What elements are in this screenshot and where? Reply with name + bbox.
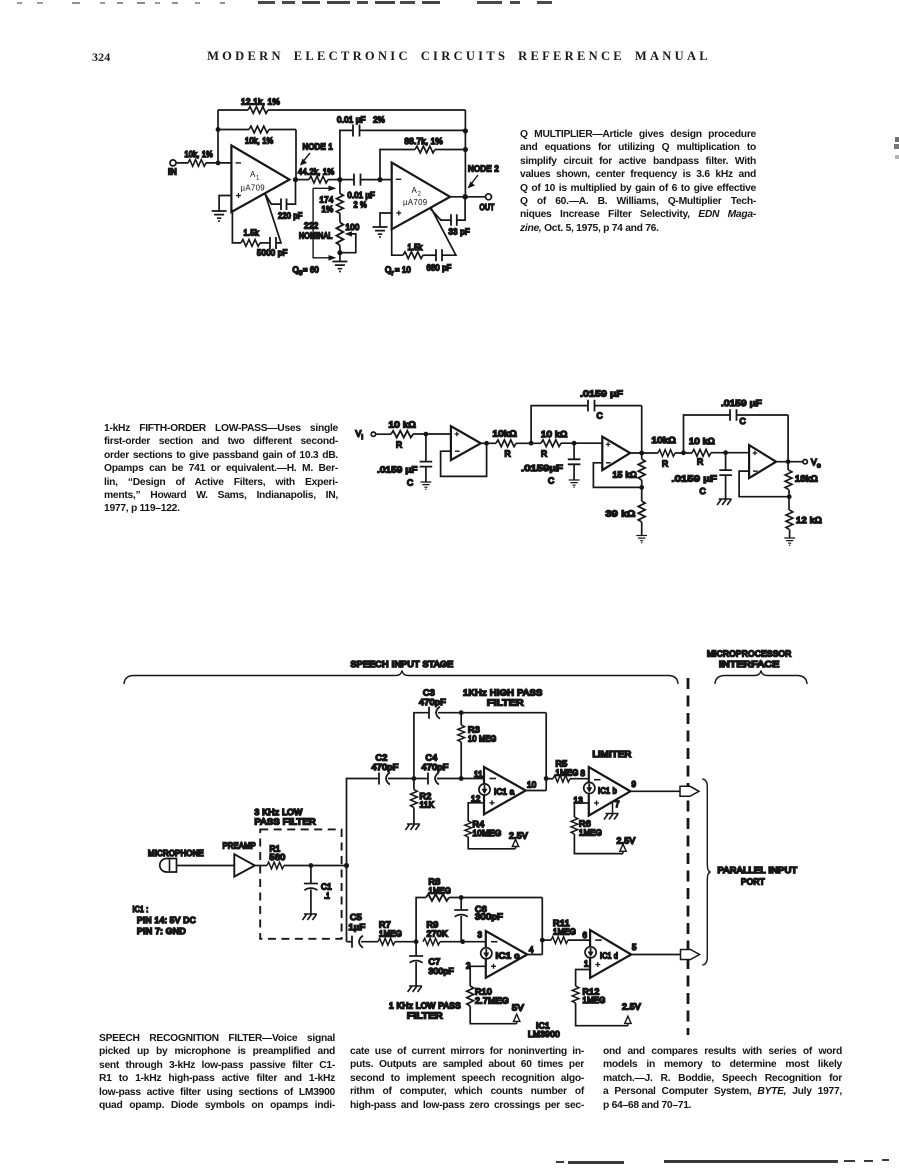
node 44.2k/174 junction [337,177,342,182]
resistor 12 kOhm [786,510,822,538]
svg-text:= 60: = 60 [303,266,319,275]
svg-text:3: 3 [478,931,483,940]
svg-text:10 kΩ: 10 kΩ [689,436,715,446]
page header [92,50,110,65]
svg-text:LM3900: LM3900 [528,1030,560,1039]
svg-text:C3: C3 [423,689,435,698]
svg-text:PIN 7: GND: PIN 7: GND [137,927,186,936]
resistor 1.5k comp A1 [232,213,260,247]
svg-text:11K: 11K [420,801,435,810]
svg-text:18kΩ: 18kΩ [795,474,818,484]
node U3 out [786,459,791,464]
svg-text:300pF: 300pF [429,967,455,976]
node IC1a out / R5 [544,776,549,781]
wire U1 out [481,442,496,444]
right edge scan artifacts [895,137,899,142]
wire A2 output [450,196,485,198]
node IC1c out / R11 [540,938,545,943]
label PARALLEL INPUT PORT [718,866,798,887]
bottom scan artifacts [556,1161,564,1163]
ground R2 [405,824,420,830]
dashed boundary microprocessor [687,678,690,1035]
wire IC1d out [631,954,680,956]
capacitor C6 300pF [454,898,503,942]
node sec2 mid [572,441,577,446]
svg-text:C5: C5 [350,913,362,922]
svg-text:8: 8 [581,769,586,778]
svg-text:10kΩ: 10kΩ [493,429,518,439]
resistor 1.5k comp A2 [392,229,423,258]
svg-text:5: 5 [632,943,637,952]
svg-text:C: C [407,478,413,488]
svg-text:PORT: PORT [741,878,765,887]
svg-text:11: 11 [474,770,483,779]
svg-text:10 MEG: 10 MEG [468,735,497,744]
node sec3 left [681,450,686,455]
capacitor 680 pF [423,208,456,273]
wire fb2 vertical [641,406,643,459]
svg-text:5V: 5V [512,1004,524,1013]
wire preamp out [255,865,267,867]
svg-text:OUT: OUT [480,203,495,212]
caption: speech recognition col 3 [603,1046,842,1113]
wire riser R8 [416,898,426,942]
brace speech input stage [124,671,678,685]
svg-text:IC1 d: IC1 d [600,952,618,961]
ground shunt1 [421,482,432,490]
svg-text:C: C [548,476,554,486]
resistor R7 1MEG [378,921,416,946]
svg-text:R: R [697,457,703,467]
dashed box 3kHz low pass filter [260,829,341,938]
caption: speech recognition col 1 [99,1033,335,1113]
resistor R5 1MEG [546,760,589,783]
pin 7 ground [604,800,620,820]
svg-text:1.5k: 1.5k [244,229,260,238]
op-amp U2 [602,437,630,470]
resistor R6 1MEG [571,817,623,854]
svg-text:PREAMP: PREAMP [223,842,257,851]
wire IC1a out [526,713,547,791]
wire input [376,433,451,435]
label IC1 pin notes [133,905,197,936]
svg-text:10 kΩ: 10 kΩ [389,420,417,430]
svg-text:4: 4 [529,946,534,955]
node pot bottom [337,250,342,255]
resistor 39 kOhm [606,501,646,535]
svg-text:300pF: 300pF [475,913,503,922]
node input RC [424,432,429,437]
supply arrow 2.5V IC1b [617,837,636,854]
trimmer arrows 222 NOMINAL [299,186,336,261]
svg-text:NOMINAL: NOMINAL [299,232,333,241]
svg-text:1MEG: 1MEG [379,930,402,939]
svg-text:2: 2 [418,192,422,198]
output flag high pass [680,786,699,796]
wire 88.7k riser [380,150,415,180]
svg-text:R7: R7 [379,921,391,930]
node C4/R3/IC1a [459,776,464,781]
capacitor C .0159 uF fb2 [580,389,642,421]
node U2 out [639,451,644,456]
svg-text:88.7k, 1%: 88.7k, 1% [405,137,444,146]
svg-text:2 %: 2 % [354,201,368,210]
svg-text:1 KHz LOW PASS: 1 KHz LOW PASS [389,1002,461,1011]
output terminal Vo [803,457,821,470]
svg-text:1: 1 [584,960,589,969]
svg-text:.0159 µF: .0159 µF [721,398,762,408]
label 1KHz high pass filter [463,689,543,708]
svg-text:MICROPROCESSOR: MICROPROCESSOR [707,650,792,659]
label 3 KHz LOW PASS FILTER [255,808,317,827]
svg-text:1.5k: 1.5k [408,243,424,252]
resistor 174 1% trimmed [320,180,344,223]
output flag low pass [681,950,700,960]
ground pot [332,253,347,273]
resistor 15 kOhm [613,459,646,480]
svg-text:220 pF: 220 pF [278,212,303,221]
node 15k/39k [639,485,644,490]
svg-text:R10: R10 [475,988,492,997]
wire IC1c out [527,898,542,955]
svg-text:.0159µF: .0159µF [521,463,563,473]
supply arrow 2.5V IC1d [622,1003,641,1026]
op-amp A1 uA709 [231,145,289,212]
capacitor C1 .1 [304,866,332,914]
svg-text:1MEG: 1MEG [579,829,602,838]
resistor R10 2.7MEG [467,986,517,1024]
op-amp U3 [749,445,776,478]
output terminal OUT [480,194,495,212]
svg-text:NODE 2: NODE 2 [468,165,499,174]
wire vertical left riser [217,110,219,163]
node A1 inverting input [216,161,221,166]
svg-text:IC1 b: IC1 b [598,787,617,796]
wire riser to top cap [340,130,353,179]
wire to A2 minus [380,179,392,181]
op-amp U1 follower [451,426,481,460]
svg-text:1: 1 [256,176,260,182]
svg-text:R9: R9 [427,921,439,930]
feedback wire U1 [441,443,487,476]
svg-text:INTERFACE: INTERFACE [719,660,780,669]
wire branch down to C5 [347,941,353,943]
node sec2 left [529,441,534,446]
svg-text:NODE 1: NODE 1 [303,143,334,152]
node top cap junction [463,128,468,133]
svg-text:0.01 µF 2%: 0.01 µF 2% [337,116,385,125]
svg-text:R: R [541,449,547,459]
current mirror IC1d [585,947,596,958]
svg-text:C1: C1 [321,883,332,892]
op-amp IC1d [590,930,631,978]
svg-text:.1: .1 [324,892,330,901]
svg-text:222: 222 [304,222,319,231]
resistor R8 1MEG [426,878,542,901]
wire 10k feedback [218,130,296,180]
svg-text:FILTER: FILTER [407,1012,443,1021]
svg-text:39 kΩ: 39 kΩ [606,509,636,519]
ground C1 [302,914,317,920]
resistor 10k 1% input [185,150,214,166]
svg-text:2.5V: 2.5V [509,832,528,841]
svg-text:1MEG: 1MEG [429,887,452,896]
wire A2 plus to ground [380,213,392,227]
feedback wire U3 minus [739,471,789,510]
resistor R9 270K [423,921,486,946]
microphone symbol [160,859,177,873]
wire U3 out to Vo [776,461,803,463]
svg-text:R: R [396,440,402,450]
svg-text:9: 9 [632,780,637,789]
resistor R 10k fifth [689,436,749,467]
op-amp IC1a [484,767,526,814]
capacitor C7 300pF [409,942,454,986]
ground 12k [784,538,795,546]
caption: Q MULTIPLIER [520,129,756,236]
svg-text:33 pF: 33 pF [449,228,471,237]
resistor R 10k second [493,429,542,459]
resistor 10k 1% feedback [245,126,274,145]
node R8/C6 [459,895,464,900]
input terminal Vi [356,429,376,442]
node 1 junction [293,177,298,182]
op-amp IC1c [486,931,527,978]
resistor 18 kOhm [785,470,818,489]
svg-text:10MEG: 10MEG [473,829,502,838]
svg-text:C: C [740,416,746,426]
wire mic to preamp [177,865,235,867]
svg-text:µA709: µA709 [403,198,428,207]
label NODE 1 with arrow [300,143,333,166]
node C2/R2/C3 [412,776,417,781]
resistor R4 10MEG [465,820,516,849]
svg-text:10 kΩ: 10 kΩ [541,429,568,439]
svg-text:C: C [700,486,706,496]
node 2 output junction [462,194,468,200]
node R1/C1 [309,863,314,868]
caption: 1-kHz fifth-order low-pass [104,423,338,517]
svg-text:100: 100 [346,223,360,232]
svg-text:7: 7 [615,800,620,809]
wire pin13 R6 [574,803,588,817]
wire branch riser [347,779,380,942]
svg-text:470pF: 470pF [419,698,446,707]
resistor R 10k fourth [652,435,693,469]
svg-text:PASS FILTER: PASS FILTER [255,818,317,827]
svg-text:R4: R4 [473,820,485,829]
capacitor 33 pF [430,197,470,237]
svg-text:0.01 µF: 0.01 µF [348,191,376,200]
svg-text:.0159 µF: .0159 µF [672,474,718,484]
svg-text:.0159 µF: .0159 µF [580,389,623,399]
capacitor C .0159 uF shunt1 [377,434,432,487]
capacitor C4 470pF [414,754,484,785]
resistor R3 10MEG [458,713,497,779]
svg-text:12.1k, 1%: 12.1k, 1% [241,98,280,107]
ground C7 [408,986,423,992]
node U1 out [484,441,489,446]
svg-text:270K: 270K [427,930,449,939]
resistor R2 11K [411,779,435,824]
svg-text:680 pF: 680 pF [427,264,452,273]
svg-text:.0159 µF: .0159 µF [377,465,418,475]
svg-text:1KHz HIGH PASS: 1KHz HIGH PASS [463,689,543,698]
svg-text:PARALLEL INPUT: PARALLEL INPUT [718,866,798,875]
svg-text:C7: C7 [429,958,441,967]
svg-text:i: i [362,434,364,441]
brace parallel input port [702,779,710,965]
svg-text:6: 6 [583,931,588,940]
wire top feedback [218,109,465,111]
wire right vertical node2 [464,110,466,197]
svg-text:IC1 c: IC1 c [496,952,520,961]
resistor R1 560 [267,845,347,869]
svg-text:IC1 a: IC1 a [494,788,515,797]
resistor R11 1MEG [542,919,590,944]
current mirror IC1b [584,782,595,793]
resistor 44.2k 1% [296,168,340,184]
wire IC1b out [630,790,680,792]
potentiometer 100 [337,222,360,252]
wire riser fb3 [684,415,731,453]
label IC1 LM3900 [528,1022,560,1040]
svg-text:5000 pF: 5000 pF [257,249,288,258]
resistor R 12.1k 1% [241,98,280,114]
feedback wire U2 minus [593,463,641,501]
svg-text:LIMITER: LIMITER [593,750,632,759]
svg-text:560: 560 [270,853,286,862]
label MICROPROCESSOR INTERFACE [707,650,792,670]
op-amp A2 uA709 [392,163,450,230]
ground A2 [373,227,388,238]
capacitor 0.01 uF 2% series [340,174,380,210]
svg-text:470pF: 470pF [372,763,399,772]
resistor 88.7k 1% [405,137,466,153]
capacitor C2 470pF [372,754,414,785]
node sec3 mid [723,450,728,455]
svg-text:3 KHz LOW: 3 KHz LOW [255,808,303,817]
ground 39k [636,536,647,544]
svg-text:1MEG: 1MEG [553,928,576,937]
node 18k/12k [787,494,792,499]
svg-text:FILTER: FILTER [487,699,524,708]
svg-text:470pF: 470pF [422,763,449,772]
node R7/C7/R9 [414,939,419,944]
capacitor C5 1uF [349,913,379,948]
svg-text:2.5V: 2.5V [622,1003,641,1012]
supply arrow 2.5V IC1a [509,832,528,849]
wire C3 riser [414,713,429,779]
node junction 12.1k/10k [216,127,221,132]
svg-text:IC1 :: IC1 : [133,905,149,914]
svg-text:= 10: = 10 [395,266,411,275]
svg-text:10k, 1%: 10k, 1% [185,150,214,159]
svg-text:o: o [817,463,821,470]
node series cap / 88.7k junction [377,177,382,182]
svg-text:R3: R3 [468,726,480,735]
svg-text:IN: IN [168,168,177,177]
svg-text:R8: R8 [429,878,441,887]
input terminal IN [168,160,177,177]
svg-text:C2: C2 [376,754,388,763]
resistor R 10k input [389,420,417,450]
node C3/R3 [459,710,464,715]
svg-text:10k, 1%: 10k, 1% [245,137,274,146]
current mirror IC1a [479,784,490,795]
svg-text:12 kΩ: 12 kΩ [796,515,822,525]
ground shunt2 [569,480,580,488]
label 1KHz low pass filter [389,1002,461,1021]
svg-text:r: r [392,271,394,277]
wire pin1 R12 [576,970,591,987]
top scan artifacts [17,2,22,4]
wire U2 out [630,452,658,454]
supply arrow 5V IC1c [512,1004,524,1024]
current mirror IC1c [481,948,492,959]
ground shunt3 [717,499,732,505]
svg-text:15 kΩ: 15 kΩ [613,470,638,480]
node R9/C6 [460,939,465,944]
svg-text:2.7MEG: 2.7MEG [475,997,509,1006]
svg-text:1%: 1% [322,205,334,214]
svg-text:1MEG: 1MEG [583,996,606,1005]
node 88.7k junction [463,147,468,152]
capacitor 5000 pF [257,194,288,258]
svg-text:C4: C4 [426,754,438,763]
capacitor C .0159 uF shunt3 [672,453,732,499]
svg-text:44.2k, 1%: 44.2k, 1% [298,168,335,177]
brace microprocessor interface [715,671,807,685]
wire riser fb2 [531,406,588,444]
capacitor C3 470pF [419,689,546,719]
ground A1 [212,211,227,222]
label NODE 2 with arrow [468,165,500,189]
wire pin2 R10 [470,966,486,986]
svg-text:174: 174 [320,196,334,205]
wire A1 plus to ground [219,196,231,211]
svg-text:1µF: 1µF [349,923,366,932]
caption: speech recognition col 2 [350,1046,584,1113]
svg-text:SPEECH INPUT STAGE: SPEECH INPUT STAGE [351,660,454,669]
svg-text:2.5V: 2.5V [617,837,636,846]
wire pin12 R4 [468,803,484,821]
wire input [176,162,231,164]
svg-text:R: R [505,449,511,459]
resistor R 10k third [541,429,602,459]
capacitor 0.01 uF 2% top [337,116,465,137]
svg-text:PIN 14: 5V DC: PIN 14: 5V DC [137,916,196,925]
svg-text:R6: R6 [579,820,591,829]
svg-text:10: 10 [527,781,537,790]
svg-text:10kΩ: 10kΩ [652,435,677,445]
svg-text:R5: R5 [556,760,568,769]
preamp triangle [234,854,255,876]
resistor R12 1MEG [572,986,628,1026]
node main branch [344,863,349,868]
op-amp IC1b [589,767,631,816]
svg-text:1MEG: 1MEG [556,769,579,778]
svg-text:R: R [662,459,668,469]
capacitor C .0159 uF shunt2 [521,443,580,485]
wire fb3 vertical [787,415,789,470]
capacitor 220 pF [265,180,302,221]
svg-text:MICROPHONE: MICROPHONE [148,849,204,858]
capacitor C .0159 uF fb3 [721,398,788,426]
svg-text:C: C [597,411,603,421]
svg-text:µA709: µA709 [241,184,266,193]
